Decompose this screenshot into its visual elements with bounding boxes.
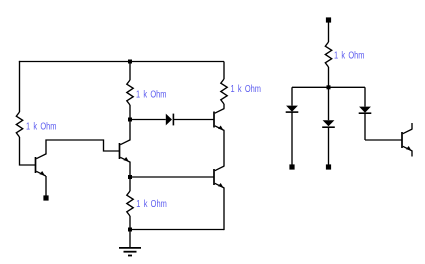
- wire R2 bottom lead: [129, 105, 131, 120]
- resistor R1: [16, 112, 22, 137]
- wire Q5 emitter stub: [411, 151, 413, 157]
- resistor R2: [127, 80, 133, 105]
- wire Q3 emitter to Q4 collector: [223, 130, 225, 166]
- label R1 value 1 k Ohm: [26, 122, 57, 133]
- label R5 value 1 k Ohm: [334, 51, 365, 62]
- wire T2 to R5: [328, 22, 330, 42]
- wire Q4 emitter lead: [223, 188, 225, 230]
- svg-text:1 k Ohm: 1 k Ohm: [136, 90, 167, 101]
- wire left branch upper: [19, 61, 21, 112]
- wire node C to Q4 base: [130, 176, 214, 178]
- wire R3 top lead: [223, 62, 225, 80]
- junction node D ground rail: [128, 228, 132, 232]
- wire D1 to Q3 base: [173, 119, 214, 121]
- wire R4 bottom lead: [129, 216, 131, 230]
- terminal T2 top: [326, 17, 331, 22]
- wire bottom rail: [130, 229, 224, 231]
- wire R3 bottom lead: [223, 104, 225, 109]
- wire left branch lower to Q1 base: [20, 137, 36, 165]
- transistor Q2: [120, 140, 130, 162]
- junction node B diode row: [128, 118, 132, 122]
- wire to Q5 base: [365, 139, 402, 141]
- junction node C emitter row: [128, 175, 132, 179]
- wire D3 to T4: [328, 127, 330, 165]
- diode D4: [359, 107, 372, 114]
- wire rail to diode D4: [364, 87, 366, 106]
- svg-text:1 k Ohm: 1 k Ohm: [334, 51, 365, 62]
- terminal T3: [289, 164, 294, 169]
- wire R2 top lead: [129, 62, 131, 81]
- wire R4 top lead: [129, 177, 131, 191]
- terminal T4: [326, 164, 331, 169]
- diode D3: [322, 120, 335, 127]
- diode D2: [286, 106, 299, 113]
- wire D4 down: [364, 113, 366, 140]
- resistor R3: [221, 79, 227, 104]
- label R4 value 1 k Ohm: [136, 199, 167, 210]
- diode D1: [166, 114, 174, 126]
- junction node A top: [128, 60, 132, 64]
- svg-text:1 k Ohm: 1 k Ohm: [136, 199, 167, 210]
- wire top rail: [19, 61, 224, 63]
- wire Q1 collector to Q2 base: [46, 140, 120, 155]
- svg-text:1 k Ohm: 1 k Ohm: [231, 84, 262, 95]
- wire rail to diode D2: [291, 87, 293, 105]
- wire Q2 emitter: [129, 162, 131, 178]
- wire R5 to node E: [328, 67, 330, 87]
- wire node E to diode D3: [328, 87, 330, 120]
- svg-text:1 k Ohm: 1 k Ohm: [26, 122, 57, 133]
- wire ground lead: [129, 230, 131, 248]
- junction node E: [327, 85, 331, 89]
- label R2 value 1 k Ohm: [136, 90, 167, 101]
- wire anode rail: [292, 86, 365, 88]
- wire Q2 collector: [129, 120, 131, 141]
- wire Q1 emitter lead: [45, 176, 47, 196]
- transistor Q3: [214, 109, 224, 131]
- transistor Q4: [214, 166, 224, 188]
- resistor R5: [325, 42, 331, 67]
- wire node B to diode D1: [130, 119, 166, 121]
- wire Q5 collector stub: [411, 123, 413, 129]
- ground: [119, 248, 141, 256]
- resistor R4: [127, 191, 133, 216]
- transistor Q1: [36, 154, 46, 176]
- transistor Q5: [402, 129, 412, 151]
- label R3 value 1 k Ohm: [231, 84, 262, 95]
- wire D2 to T3: [291, 112, 293, 165]
- terminal T1: [43, 195, 48, 200]
